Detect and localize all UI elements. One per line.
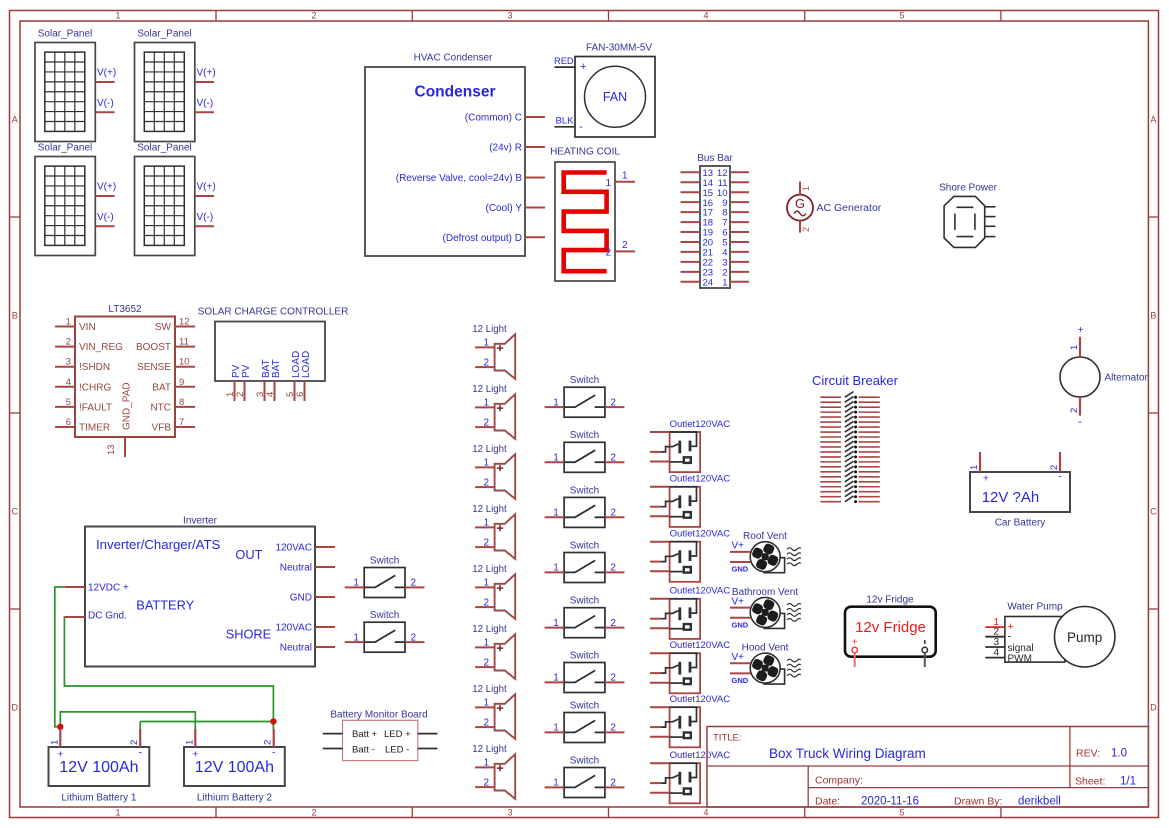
svg-text:12 Light: 12 Light [472,564,507,575]
svg-text:Battery Monitor Board: Battery Monitor Board [330,710,427,721]
svg-text:4: 4 [993,647,999,658]
svg-text:TIMER: TIMER [79,423,110,434]
heating coil resistive element [550,147,620,282]
svg-text:(Defrost output) D: (Defrost output) D [443,233,522,244]
solar charge controller pin 6 LOAD [295,351,312,401]
bus bar pin 7 (right) [722,218,749,229]
svg-text:D: D [11,703,18,713]
bus bar pin 20 (left) [681,238,714,249]
solar charge controller pin 2 PV [235,364,252,401]
LT3652 pin 13 GND_PAD [106,382,133,457]
battery BT2 12V 100Ah [184,747,285,804]
light L2 pin 2 [475,417,495,428]
svg-text:2: 2 [235,392,246,397]
fridge 12v Fridge [845,594,936,656]
svg-text:V(+): V(+) [97,182,116,193]
svg-text:Inverter/Charger/ATS: Inverter/Charger/ATS [96,537,221,552]
svg-text:1: 1 [722,277,727,288]
switch SW4 [564,540,605,582]
light L7 12 Light [472,684,515,739]
svg-text:V(+): V(+) [197,68,216,79]
svg-text:1: 1 [553,618,559,629]
svg-text:VIN_REG: VIN_REG [79,342,123,353]
svg-text:1: 1 [353,632,359,643]
circuit breaker pole 17 [820,471,880,478]
svg-text:PWM: PWM [1008,654,1032,665]
light L5 pin 1 [475,578,495,589]
vent fan M2 Bathroom Vent [732,587,801,629]
fan pin + RED [554,56,586,73]
switch SW9 pin 1 [345,578,365,589]
svg-text:120VAC: 120VAC [275,623,312,634]
svg-text:Switch: Switch [570,485,599,496]
svg-text:2: 2 [610,723,616,734]
svg-text:2: 2 [483,597,489,608]
light L2 pin 1 [475,398,495,409]
svg-text:Switch: Switch [570,650,599,661]
vent fan M3 Hood Vent [742,643,801,685]
svg-text:2: 2 [610,452,616,463]
svg-text:signal: signal [1008,643,1034,654]
svg-text:2: 2 [411,578,417,589]
alternator G2 [1060,357,1149,397]
pin V(-) of Solar_Panel 2 [195,98,214,113]
svg-text:2: 2 [1069,408,1080,413]
light L3 pin 1 [475,458,495,469]
svg-text:12 Light: 12 Light [472,684,507,695]
svg-text:4: 4 [703,11,708,21]
bus bar pin 23 (left) [681,267,714,278]
switch SW7 pin 1 [545,723,565,734]
svg-text:RED: RED [554,56,574,66]
pin V(+) of Solar_Panel 1 [95,68,116,83]
HVAC pin (24v) R [489,143,545,154]
circuit breaker pole 8 [820,426,880,433]
svg-text:A: A [1150,115,1156,125]
light L5 pin 2 [475,597,495,608]
svg-text:3: 3 [66,357,71,368]
LT3652 pin 4 !CHRG [55,377,111,394]
bus bar pin 15 (left) [681,188,714,199]
svg-text:-: - [272,747,276,759]
vent M2 pin GND [730,618,750,630]
vent M2 pin V+ [730,596,750,607]
battery BT1 12V 100Ah [49,747,150,804]
circuit breaker pole 5 [820,412,880,419]
svg-text:TITLE:: TITLE: [713,732,742,743]
shore power pin 3 [985,225,996,227]
battery monitor pin LED- [418,748,438,750]
pin V(+) of Solar_Panel 4 [195,182,216,197]
switch SW5 pin 1 [545,618,565,629]
battery BT1 pin 1 (+) [49,729,60,747]
outlet O6 Outlet120VAC [660,694,730,747]
switch SW8 pin 1 [545,778,565,789]
svg-text:2: 2 [801,227,811,232]
switch SW2 pin 1 [545,452,565,463]
svg-text:12 Light: 12 Light [472,744,507,755]
wire DC Gnd to battery2 - [64,617,273,722]
vent M1 pin V+ [730,541,750,552]
svg-text:1: 1 [49,740,60,745]
svg-text:Switch: Switch [370,555,399,566]
svg-text:2: 2 [483,717,489,728]
light L1 12 Light [472,324,515,379]
svg-text:10: 10 [179,357,190,368]
svg-text:2020-11-16: 2020-11-16 [861,796,919,808]
car battery BT3 12V ?Ah [970,471,1070,529]
outlet O4 pin neutral [650,618,660,620]
circuit breaker pole 19 [820,481,880,488]
svg-text:1: 1 [483,638,489,649]
bus bar pin 11 (right) [718,178,749,189]
light L3 12 Light [472,444,515,499]
svg-text:12 Light: 12 Light [472,504,507,515]
LT3652 pin 3 !SHDN [55,357,110,374]
svg-text:1: 1 [553,508,559,519]
svg-text:2: 2 [129,740,140,745]
svg-text:1: 1 [969,465,980,470]
svg-text:2: 2 [622,240,628,251]
circuit breaker pole 22 [820,496,880,503]
battery BT2 pin 1 (+) [184,729,195,747]
inverter pin Neutral (right,y=647) [280,643,335,654]
switch SW3 [564,485,605,527]
svg-text:1: 1 [483,518,489,529]
outlet O3 pin hot [650,541,670,543]
outlet O7 pin hot [650,762,670,764]
svg-text:12 Light: 12 Light [472,624,507,635]
water pump M4 [1005,601,1115,667]
svg-text:Shore Power: Shore Power [939,183,997,194]
svg-text:12 Light: 12 Light [472,384,507,395]
light L4 12 Light [472,504,515,559]
outlet O6 pin ground [650,736,670,738]
svg-text:B: B [12,311,18,321]
LT3652 pin 5 !FAULT [55,397,112,414]
svg-text:SHORE: SHORE [226,627,272,642]
svg-text:1/1: 1/1 [1120,775,1136,787]
svg-text:GND: GND [732,676,749,685]
pin V(+) of Solar_Panel 2 [195,68,216,83]
svg-text:+: + [852,637,858,648]
bus bar pin 14 (left) [681,178,714,189]
circuit breaker pole 15 [820,461,880,468]
svg-text:BLK: BLK [556,116,575,127]
bus bar pin 4 (right) [722,248,749,259]
svg-text:SOLAR CHARGE CONTROLLER: SOLAR CHARGE CONTROLLER [198,306,349,317]
svg-text:C: C [1150,507,1157,517]
svg-text:Switch: Switch [570,755,599,766]
svg-text:3: 3 [507,11,512,21]
circuit breaker pole 12 [820,446,880,453]
svg-text:Outlet120VAC: Outlet120VAC [670,419,731,430]
outlet O4 pin ground [650,627,670,629]
svg-text:GND: GND [290,593,312,604]
svg-text:A: A [12,115,18,125]
heating coil pin 1 [605,170,635,189]
svg-text:Date:: Date: [815,796,840,808]
wire 12VDC+ to battery1 + [55,587,65,727]
outlet O4 Outlet120VAC [660,586,730,639]
switch SW1 pin 1 [545,397,565,408]
svg-text:Drawn By:: Drawn By: [954,796,1002,808]
heating coil pin 2 [605,240,635,259]
inverter pin GND (right,y=597) [290,593,335,604]
switch SW4 pin 2 [605,563,625,574]
svg-text:Switch: Switch [570,375,599,386]
bus bar pin 22 (left) [681,257,714,268]
bus bar pin 21 (left) [681,248,714,259]
bus bar pin 9 (right) [722,198,749,209]
svg-text:C: C [11,507,18,517]
LT3652 pin 12 SW [155,317,195,334]
svg-text:1: 1 [483,458,489,469]
outlet O3 pin ground [650,570,670,572]
svg-text:1.0: 1.0 [1111,748,1127,760]
svg-text:-: - [1008,631,1012,643]
battery BT1 pin 2 (-) [129,729,140,747]
circuit breaker bank CB1 [812,373,899,388]
svg-text:V(+): V(+) [97,68,116,79]
svg-text:DC Gnd.: DC Gnd. [88,611,127,622]
switch SW3 pin 2 [605,508,625,519]
switch SW5 pin 2 [605,618,625,629]
water pump pin 3 signal [985,637,1033,654]
svg-text:Switch: Switch [570,596,599,607]
svg-text:derikbell: derikbell [1018,796,1061,808]
inverter/charger U2 [85,516,315,667]
svg-text:(24v) R: (24v) R [489,143,522,154]
LT3652 pin 2 VIN_REG [55,337,123,354]
svg-text:4: 4 [66,377,71,388]
svg-text:3: 3 [993,637,999,648]
AC generator G1 [787,195,882,221]
svg-text:1: 1 [66,317,71,328]
svg-text:V(-): V(-) [197,212,214,223]
svg-text:Pump: Pump [1067,630,1102,645]
LT3652 pin 1 VIN [55,317,96,334]
circuit breaker pole 6 [820,416,880,423]
shore power inlet [939,183,997,248]
solar charge controller pin 3 BAT [255,359,272,401]
light L6 12 Light [472,624,515,679]
svg-text:Switch: Switch [570,430,599,441]
inverter pin DC Gnd. [65,611,127,622]
svg-text:2: 2 [483,477,489,488]
svg-text:3: 3 [507,807,512,817]
svg-text:7: 7 [179,417,184,428]
LT3652 pin 6 TIMER [55,417,110,434]
circuit breaker pole 14 [820,456,880,463]
svg-text:Switch: Switch [570,540,599,551]
svg-text:2: 2 [483,417,489,428]
light L7 pin 2 [475,717,495,728]
svg-text:V+: V+ [732,652,745,663]
svg-text:Outlet120VAC: Outlet120VAC [670,586,731,597]
svg-text:5: 5 [66,397,71,408]
light L2 12 Light [472,384,515,439]
svg-text:Inverter: Inverter [183,516,218,527]
solar panel Solar_Panel 2 [135,28,195,141]
svg-text:+: + [580,61,586,73]
svg-text:11: 11 [179,337,189,348]
svg-text:D: D [1150,703,1157,713]
svg-text:-: - [1058,471,1062,483]
svg-text:Solar_Panel: Solar_Panel [38,28,92,39]
fan FAN-30MM-5V [575,42,655,137]
battery monitor pin Batt+ [323,733,343,735]
svg-text:2: 2 [610,508,616,519]
svg-text:Outlet120VAC: Outlet120VAC [670,474,731,485]
svg-text:BOOST: BOOST [136,342,171,353]
svg-text:2: 2 [311,807,316,817]
svg-text:5: 5 [899,807,904,817]
vent M3 pin GND [730,673,750,685]
circuit breaker pole 10 [820,436,880,443]
svg-text:2: 2 [610,397,616,408]
svg-text:Outlet120VAC: Outlet120VAC [670,750,731,761]
bus bar pin 16 (left) [681,198,714,209]
bus bar pin 13 (left) [681,168,714,179]
svg-text:2: 2 [610,778,616,789]
svg-text:HVAC Condenser: HVAC Condenser [414,53,493,64]
switch SW5 [564,596,605,638]
svg-text:FAN-30MM-5V: FAN-30MM-5V [586,42,652,53]
vent fan M1 Roof Vent [743,531,801,573]
svg-text:Hood Vent: Hood Vent [742,643,789,654]
svg-text:Batt +: Batt + [352,729,378,740]
svg-text:Water Pump: Water Pump [1007,601,1063,612]
pin V(-) of Solar_Panel 3 [95,212,114,227]
AC generator pin 1 [800,182,811,195]
svg-text:1: 1 [115,807,120,817]
svg-text:+: + [983,473,989,485]
outlet O6 pin hot [650,706,670,708]
svg-text:-: - [1078,416,1082,428]
svg-text:SENSE: SENSE [137,362,171,373]
bus bar pin 18 (left) [681,218,714,229]
wire battery1 - to battery2 - [140,722,273,730]
circuit breaker pole 13 [820,451,880,458]
shore power pin 4 [985,236,996,238]
svg-text:Alternator: Alternator [1105,373,1149,384]
circuit breaker pole 9 [820,431,880,438]
light L8 pin 1 [475,758,495,769]
svg-text:Circuit Breaker: Circuit Breaker [812,373,899,388]
svg-text:VIN: VIN [79,322,96,333]
svg-text:Switch: Switch [570,700,599,711]
svg-text:120VAC: 120VAC [275,543,312,554]
light L5 12 Light [472,564,515,619]
svg-text:Solar_Panel: Solar_Panel [38,142,92,153]
switch SW10 pin 1 [345,632,365,643]
switch SW7 [564,700,605,742]
switch SW6 pin 2 [605,673,625,684]
switch SW4 pin 1 [545,563,565,574]
svg-text:V+: V+ [732,596,745,607]
outlet O1 pin ground [650,461,670,463]
circuit breaker pole 4 [820,407,880,414]
svg-text:V(-): V(-) [97,212,114,223]
svg-text:2: 2 [483,357,489,368]
solar charge controller pin 1 PV [225,364,242,401]
svg-text:2: 2 [1049,465,1060,470]
solar charge controller block [198,306,349,381]
svg-text:OUT: OUT [235,547,262,562]
alternator pin 1 (+) [1069,325,1084,357]
outlet O1 Outlet120VAC [660,419,730,472]
HVAC Condenser block [365,53,525,257]
svg-text:HEATING COIL: HEATING COIL [550,147,620,158]
svg-text:GND_PAD: GND_PAD [122,382,133,430]
svg-text:1: 1 [483,698,489,709]
light L6 pin 2 [475,657,495,668]
svg-text:Sheet:: Sheet: [1075,775,1105,787]
outlet O5 Outlet120VAC [660,640,730,693]
bus bar pin 2 (right) [722,267,749,278]
solar panel Solar_Panel 3 [35,142,95,255]
circuit breaker pole 7 [820,421,880,428]
outlet O4 pin hot [650,598,670,600]
svg-text:2: 2 [263,740,274,745]
solar charge controller pin 5 LOAD [285,351,302,401]
svg-text:AC Generator: AC Generator [817,202,882,214]
svg-text:1: 1 [483,758,489,769]
switch SW10 pin 2 [405,632,425,643]
bus bar pin 5 (right) [722,238,749,249]
svg-text:V+: V+ [732,541,745,552]
svg-text:Solar_Panel: Solar_Panel [137,28,191,39]
outlet O5 pin ground [650,682,670,684]
svg-text:Outlet120VAC: Outlet120VAC [670,640,731,651]
bus bar pin 12 (right) [717,168,749,179]
svg-text:1: 1 [553,673,559,684]
svg-text:1: 1 [553,563,559,574]
outlet O5 pin hot [650,652,670,654]
vent M3 pin V+ [730,652,750,663]
bus bar pin 19 (left) [681,228,714,239]
svg-text:(Common) C: (Common) C [465,113,522,124]
outlet O2 pin hot [650,486,670,488]
light L4 pin 1 [475,518,495,529]
svg-text:12 Light: 12 Light [472,444,507,455]
light L8 pin 2 [475,777,495,788]
battery monitor board [330,710,427,761]
outlet O3 pin neutral [650,561,660,563]
outlet O6 pin neutral [650,726,660,728]
LT3652 pin 11 BOOST [136,337,195,354]
fridge terminal + [852,637,858,667]
HVAC pin (Common) C [465,113,545,124]
outlet O7 Outlet120VAC [660,750,730,803]
svg-text:12v Fridge: 12v Fridge [855,619,926,636]
svg-text:24: 24 [703,277,714,288]
HVAC pin (Reverse Valve, cool=24v) B [396,173,545,184]
light L6 pin 1 [475,638,495,649]
circuit breaker pole 16 [820,466,880,473]
outlet O7 pin neutral [650,782,660,784]
pin V(+) of Solar_Panel 3 [95,182,116,197]
svg-text:1: 1 [1069,345,1080,350]
svg-text:V(-): V(-) [97,98,114,109]
title block [707,727,1148,808]
battery monitor pin LED+ [418,733,438,735]
svg-text:12 Light: 12 Light [472,324,507,335]
svg-text:6: 6 [295,392,306,397]
svg-text:1: 1 [184,740,195,745]
svg-text:1: 1 [483,338,489,349]
